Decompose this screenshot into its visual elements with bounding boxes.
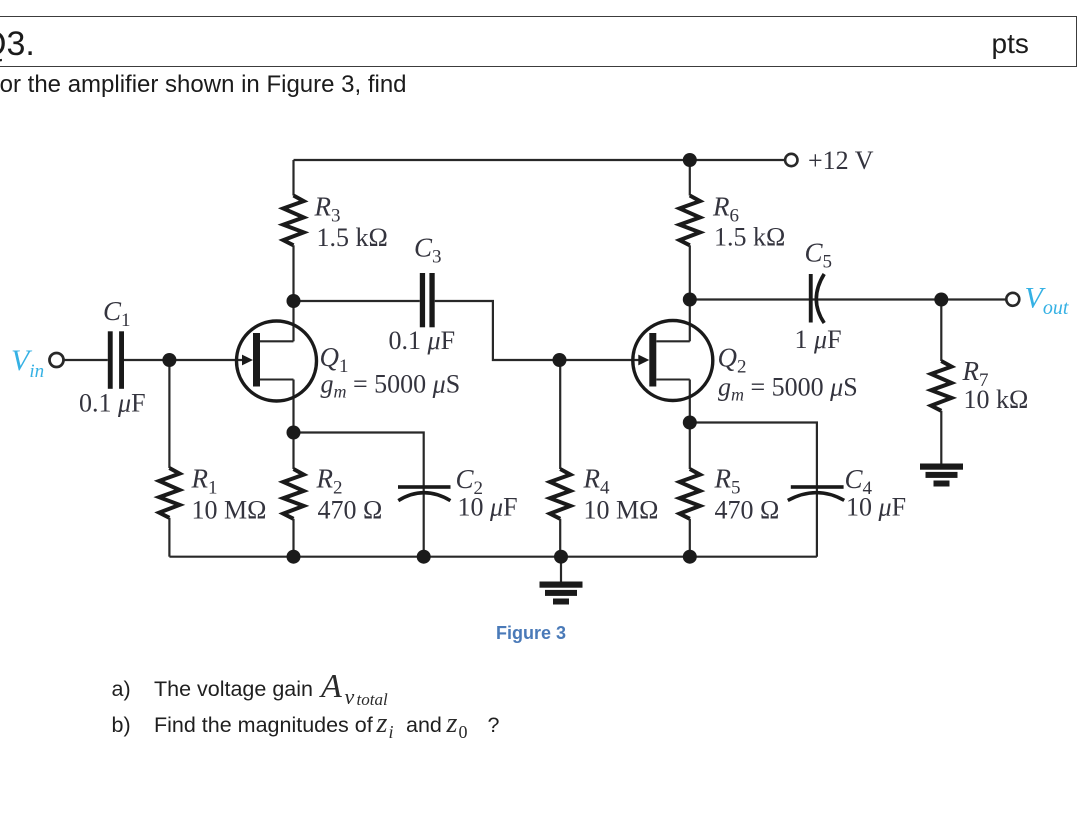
wire gate row stage 1 (C1 to Q1 gate) xyxy=(64,359,108,361)
node Q1 drain junction xyxy=(287,294,301,308)
svg-text:R3: R3 xyxy=(314,192,341,227)
wire Q1 drain lead xyxy=(292,301,294,341)
svg-text:10 MΩ: 10 MΩ xyxy=(584,496,659,525)
svg-text:C1: C1 xyxy=(103,296,131,331)
terminal +12V xyxy=(785,154,797,166)
svg-text:10 kΩ: 10 kΩ xyxy=(964,385,1029,414)
svg-text:Vin: Vin xyxy=(11,344,44,382)
svg-text:0.1 μF: 0.1 μF xyxy=(389,326,456,355)
svg-text:1.5 kΩ: 1.5 kΩ xyxy=(714,223,785,252)
svg-text:10 μF: 10 μF xyxy=(458,493,518,522)
svg-text:+12 V: +12 V xyxy=(808,146,874,175)
wire top +12V rail xyxy=(294,159,785,161)
svg-text:1.5 kΩ: 1.5 kΩ xyxy=(317,223,388,252)
wire Q1 source to C2 drop xyxy=(294,433,424,557)
wire Q2 drain node to C5 and Vout terminal xyxy=(690,298,1007,300)
capacitor C5 xyxy=(809,274,824,323)
resistor R6 xyxy=(680,160,700,300)
node rail C2 xyxy=(417,550,431,564)
wire Q1 source lead xyxy=(292,380,294,433)
resistor R3 xyxy=(283,160,303,301)
svg-text:Vout: Vout xyxy=(1025,282,1069,320)
terminal Vout xyxy=(1006,293,1019,306)
node rail ground xyxy=(554,550,568,564)
node +12V rail junction xyxy=(683,153,697,167)
svg-text:C5: C5 xyxy=(805,238,833,273)
resistor R1 xyxy=(159,360,179,557)
node rail R5 xyxy=(683,550,697,564)
capacitor C4 xyxy=(788,485,844,500)
resistor R2 xyxy=(283,433,303,557)
resistor R4 xyxy=(550,360,570,557)
svg-text:10 MΩ: 10 MΩ xyxy=(192,496,267,525)
svg-text:1 μF: 1 μF xyxy=(795,325,842,354)
terminal Vin xyxy=(50,353,64,367)
svg-text:0.1 μF: 0.1 μF xyxy=(79,389,146,418)
svg-text:R2: R2 xyxy=(316,464,343,499)
node rail R2 xyxy=(287,550,301,564)
svg-text:R4: R4 xyxy=(583,464,611,499)
capacitor C3 xyxy=(420,273,435,327)
transistor Q1 xyxy=(237,321,317,401)
wire bottom ground rail xyxy=(169,556,817,558)
wire C3 to Q2 gate node (interstage) xyxy=(435,301,644,360)
node Q2 drain junction xyxy=(683,293,697,307)
svg-text:R5: R5 xyxy=(714,464,741,499)
node Q1 source junction xyxy=(287,426,301,440)
capacitor C1 xyxy=(108,331,124,389)
wire Q2 source to C4 drop xyxy=(690,423,817,557)
wire Q1 drain node to C3 xyxy=(294,300,420,302)
transistor Q2 xyxy=(633,321,713,401)
wire Q2 source lead xyxy=(689,380,691,423)
node Q1 gate junction xyxy=(162,353,176,367)
header rule box xyxy=(0,16,1077,67)
item a xyxy=(112,679,131,701)
capacitor C2 xyxy=(398,485,451,500)
figure caption xyxy=(496,624,566,642)
resistor R5 xyxy=(680,423,700,557)
node Q2 source junction xyxy=(683,416,697,430)
node Q2 gate junction xyxy=(553,353,567,367)
svg-text:R6: R6 xyxy=(712,192,739,227)
resistor R7 xyxy=(931,300,951,464)
wire Q2 drain lead xyxy=(689,300,691,342)
svg-text:10 μF: 10 μF xyxy=(846,493,906,522)
ground main rail xyxy=(540,582,583,605)
svg-text:R1: R1 xyxy=(191,464,218,499)
svg-text:C3: C3 xyxy=(414,233,442,268)
node Vout junction xyxy=(934,293,948,307)
item b xyxy=(112,715,131,737)
svg-text:470 Ω: 470 Ω xyxy=(318,496,383,525)
wire ground stem main xyxy=(560,557,562,582)
ground R7 xyxy=(920,464,963,487)
svg-text:470 Ω: 470 Ω xyxy=(715,496,780,525)
